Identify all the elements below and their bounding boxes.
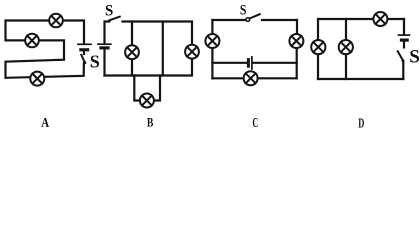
wire: circuit A stub battery to switch <box>83 51 85 54</box>
battery (circuit C) long plate <box>251 57 253 69</box>
lamp L1 (circuit A top) <box>49 14 63 28</box>
wire: circuit D right side lower <box>402 62 404 79</box>
wire: circuit D top rail <box>318 18 404 20</box>
wire: circuit B middle branch 1 upper <box>131 22 133 46</box>
battery (circuit B) short thick plate <box>101 46 108 49</box>
lamp L11 (circuit D left) <box>311 40 325 54</box>
switch S (circuit B) blade <box>110 17 120 21</box>
wire: circuit B middle branch 2 <box>162 22 164 76</box>
battery (circuit B) long plate <box>98 43 111 45</box>
wire: circuit C middle rail left <box>212 62 247 64</box>
wire: circuit B hanging loop right <box>154 76 160 101</box>
wire: circuit D stub battery to switch <box>403 42 405 48</box>
switch S (circuit D) contact dot <box>402 59 405 62</box>
wire: circuit B top rail <box>123 22 193 45</box>
switch S (circuit A) blade <box>81 55 84 63</box>
wire: circuit A series snake loop <box>6 21 85 78</box>
lamp L7 (circuit C left) <box>205 34 219 48</box>
battery (circuit C) short thick plate <box>247 60 250 67</box>
wire: circuit B left side with top-left corner <box>105 22 110 44</box>
wire: circuit C top rail right of switch <box>262 19 297 21</box>
wire: circuit C bottom rail left <box>212 77 243 79</box>
wire: circuit C left side upper <box>211 20 213 34</box>
wire: circuit D middle branch <box>345 19 347 79</box>
battery (circuit D) long plate <box>399 34 410 36</box>
wire: circuit C right side upper <box>296 20 298 34</box>
wire: circuit B bottom rail <box>105 74 192 76</box>
lamp L6 (circuit B hanging bottom) <box>140 94 154 108</box>
lamp L10 (circuit D top) <box>373 12 387 26</box>
svg-text:D: D <box>358 115 364 130</box>
switch S (circuit B) pivot dot <box>108 20 111 23</box>
wire: circuit C top rail left of switch <box>212 19 246 21</box>
svg-text:B: B <box>147 116 154 130</box>
wire: circuit D bottom rail <box>318 78 403 80</box>
switch S (circuit A) contact dot <box>84 61 87 64</box>
wire: circuit B middle branch 1 lower <box>131 59 133 76</box>
lamp L9 (circuit C bottom) <box>244 71 258 85</box>
lamp L3 (circuit A bottom) <box>30 72 44 86</box>
switch S (circuit C) blade <box>250 14 260 18</box>
wire: circuit C middle rail right <box>253 62 296 64</box>
svg-text:C: C <box>252 115 258 130</box>
svg-text:S: S <box>105 3 113 20</box>
wire: circuit C bottom rail right <box>258 77 297 79</box>
battery (circuit A) short thick plate <box>81 48 88 51</box>
wire: circuit C right side lower <box>296 48 298 78</box>
wire: circuit B hanging loop left <box>134 76 140 101</box>
lamp L12 (circuit D middle) <box>339 40 353 54</box>
svg-text:A: A <box>41 115 49 130</box>
battery (circuit D) short thick plate <box>402 38 408 41</box>
svg-text:S: S <box>409 46 420 67</box>
switch S (circuit C) pivot ring <box>246 18 250 22</box>
wire: circuit B left side below battery <box>103 49 105 76</box>
lamp L4 (circuit B branch 1) <box>125 45 139 59</box>
lamp L2 (circuit A middle) <box>25 34 39 48</box>
lamp L5 (circuit B right side) <box>185 45 199 59</box>
wire: circuit C left side lower <box>211 48 213 78</box>
svg-text:S: S <box>240 3 247 19</box>
svg-text:S: S <box>90 51 100 71</box>
wire: circuit D right side upper <box>403 19 405 34</box>
switch S (circuit D) blade <box>398 51 403 60</box>
battery (circuit A) long plate <box>78 43 91 45</box>
wire: circuit B right side lower <box>191 59 193 76</box>
lamp L8 (circuit C right) <box>289 34 303 48</box>
wire: circuit D left side <box>317 19 319 79</box>
